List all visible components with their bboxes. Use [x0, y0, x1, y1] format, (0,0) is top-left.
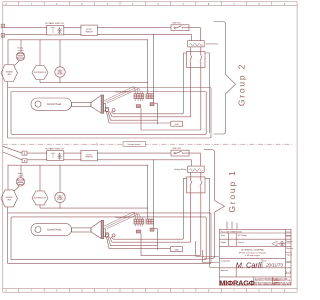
- svg-text:PWR SP: PWR SP: [85, 31, 93, 33]
- svg-text:Scale: Scale: [221, 235, 226, 237]
- svg-text:TELEMATIC GENERAL: TELEMATIC GENERAL: [241, 249, 265, 252]
- enclosure inner boundary G1: [11, 217, 206, 260]
- contact junction dots G2: [190, 55, 201, 63]
- svg-text:MIΦRAGΦ: MIΦRAGΦ: [219, 278, 254, 287]
- distributor hexagon H2 G2: [32, 66, 48, 80]
- control head handle G1: [31, 220, 115, 238]
- wire left entry diagonal 2 G1: [3, 152, 22, 160]
- wire contact 2 to terminal drop G2: [141, 68, 201, 131]
- svg-text:Replaced: Replaced: [286, 248, 293, 250]
- svg-text:ROTARY SWITCH: ROTARY SWITCH: [45, 147, 64, 150]
- emergency coupler E1 G1: [14, 165, 25, 191]
- brake solenoid switch B1 G1: [171, 150, 189, 156]
- svg-text:UPON ALL REQUESTS: UPON ALL REQUESTS: [273, 283, 292, 286]
- wire distributor stubs G2: [39, 40, 41, 83]
- ground terminal box G2: [171, 121, 183, 126]
- svg-text:FULL-SIZE DIMENSIONS: FULL-SIZE DIMENSIONS: [221, 231, 243, 233]
- svg-text:BRK SOL: BRK SOL: [173, 22, 183, 24]
- wire TB2 to bundle G2: [154, 103, 158, 124]
- engine unit hexagon H1 G1: [1, 190, 18, 207]
- junction dots buses G2: [46, 27, 154, 40]
- power supply PS1 G2: [81, 25, 98, 35]
- wire hexagon bottom bus G1: [40, 207, 148, 209]
- distributor hexagon H2 G1: [32, 191, 48, 205]
- safety relay coil K1 G2: [188, 41, 205, 52]
- wire bus L1 G1: [27, 153, 200, 166]
- emergency coupler E1 G2: [14, 40, 25, 66]
- zone numbers top: [6, 3, 286, 6]
- svg-text:Brake MSPT-1: Brake MSPT-1: [115, 216, 130, 219]
- svg-text:DISTRIBUTOR: DISTRIBUTOR: [34, 72, 47, 74]
- svg-text:BRK SOL: BRK SOL: [173, 148, 183, 150]
- rotary switch S1 G1: [47, 151, 64, 161]
- terminal block TB2 lower junction G1: [150, 228, 154, 231]
- svg-text:Safety Relay: Safety Relay: [206, 42, 219, 45]
- wire hexagon H1 to enclosure G1: [7, 207, 9, 213]
- rotary switch contact dots G2: [59, 28, 60, 34]
- terminal block TB2 G2: [146, 94, 154, 99]
- engine unit hexagon H1 G2: [1, 65, 18, 82]
- wire TB2 to bundle G1: [154, 229, 158, 250]
- wire bus L3 G1: [8, 165, 148, 190]
- wire L3 drop to terminal block G2: [147, 40, 149, 94]
- brake solenoid switch B1 G2: [171, 25, 189, 31]
- terminal block TB1 lower junction G2: [136, 105, 140, 108]
- terminal block TB2 G1: [146, 219, 154, 224]
- svg-text:Group 1: Group 1: [227, 169, 237, 212]
- svg-text:DISTRIBUTOR: DISTRIBUTOR: [34, 198, 47, 200]
- svg-text:Brake MSPT-1: Brake MSPT-1: [115, 91, 130, 94]
- svg-text:Safety Relay: Safety Relay: [174, 168, 187, 171]
- svg-text:Device: Device: [286, 231, 291, 233]
- terminal block TB1 G2: [134, 92, 144, 101]
- wire hexagon bottom bus G2: [40, 82, 148, 84]
- projection symbol: [272, 241, 285, 247]
- groups boundary label box: [123, 142, 146, 147]
- relay contact block K1 contacts G2: [187, 52, 206, 68]
- wire contact block left to connector G2: [111, 53, 187, 114]
- svg-text:GND: GND: [174, 124, 179, 126]
- enclosure inner boundary G2: [11, 92, 206, 135]
- junction dots hex bus G2: [60, 82, 149, 83]
- svg-text:ROTARY SWITCH: ROTARY SWITCH: [45, 22, 64, 25]
- wire contact block left to connector G1: [111, 178, 187, 239]
- enclosure outer boundary G1: [7, 213, 211, 264]
- wire contact 2 to terminal drop G1: [141, 193, 201, 256]
- svg-text:PUMP: PUMP: [58, 199, 63, 201]
- wire L2 drop to terminal block G1: [153, 160, 155, 228]
- wire bus L2 G2: [5, 34, 192, 40]
- left terminal box 1 G1: [22, 151, 27, 155]
- right column labels: [286, 231, 293, 263]
- svg-text:Designed by: Designed by: [221, 260, 231, 262]
- svg-text:Control Head: Control Head: [47, 103, 62, 106]
- left terminal B G2: [1, 34, 4, 38]
- wire connector bundle w3 G2: [108, 112, 158, 121]
- control head handle G2: [31, 95, 115, 113]
- svg-text:GND: GND: [174, 249, 179, 251]
- wire L2 drop to terminal block G2: [153, 34, 155, 102]
- brace group 1: [204, 150, 225, 259]
- stamp text right: [273, 277, 292, 286]
- wire ground lead G1: [107, 237, 171, 249]
- wire bus L1 G2: [5, 28, 201, 41]
- wire G1 to title block 3: [210, 258, 220, 267]
- blower motor M1 G2: [55, 40, 65, 83]
- svg-text:Approved: Approved: [221, 269, 228, 272]
- svg-text:20/11/73: 20/11/73: [265, 262, 283, 267]
- ground terminal box G1: [171, 247, 183, 252]
- boundary centre tick: [96, 143, 98, 146]
- svg-text:a 3/8 wide engine: a 3/8 wide engine: [245, 255, 260, 257]
- svg-text:PUMP: PUMP: [58, 73, 63, 75]
- svg-text:Group 2: Group 2: [237, 63, 247, 106]
- wire stubs above title block: [227, 222, 237, 230]
- blower motor M1 G1: [55, 165, 65, 208]
- wire contact block right down G1: [205, 178, 210, 258]
- wire contact 1 to connector G1: [110, 193, 191, 242]
- terminal block TB1 lower junction G1: [136, 230, 140, 233]
- stamp text left: [255, 277, 280, 286]
- wire ground lead G2: [107, 112, 171, 124]
- brace group 2: [214, 22, 236, 135]
- wire contact block right down G2: [205, 53, 210, 133]
- svg-text:EFI Hal 2 LTI about 2 JO4 (max: EFI Hal 2 LTI about 2 JO4 (max): [239, 251, 267, 254]
- contact junction dots G1: [190, 180, 201, 188]
- wire G1 to title block 2: [202, 250, 219, 263]
- zone numbers bottom: [6, 290, 286, 293]
- wire distributor stubs G1: [39, 165, 41, 208]
- power supply PS1 G1: [81, 151, 98, 161]
- wire L3 drop to terminal block G1: [147, 165, 149, 219]
- wire bus L3 G2: [8, 40, 148, 65]
- wire connector bundle w3 G1: [108, 237, 158, 246]
- rotary switch S1 G2: [47, 25, 64, 35]
- groups boundary dashed line: [3, 143, 293, 145]
- svg-text:3=3: 3=3: [285, 271, 291, 275]
- left terminal box 2 G1: [22, 159, 27, 163]
- left terminal A G2: [1, 24, 4, 28]
- rotary switch contact dots G1: [59, 153, 60, 159]
- svg-text:PWR SP: PWR SP: [85, 157, 93, 159]
- terminal block TB2 lower junction G2: [150, 103, 154, 106]
- title block frame: [219, 229, 291, 285]
- svg-text:Edition: Edition: [221, 241, 227, 244]
- wire left entry diagonal 1 G1: [3, 146, 22, 153]
- wire bus L2 G1: [27, 160, 192, 166]
- terminal block TB1 G1: [134, 217, 144, 226]
- svg-text:Replaces: Replaces: [286, 241, 293, 243]
- wire hexagon H1 to enclosure G2: [7, 82, 9, 88]
- svg-text:M. Carli: M. Carli: [236, 260, 262, 269]
- enclosure outer boundary G2: [7, 88, 211, 139]
- svg-text:Groups bound.: Groups bound.: [128, 144, 142, 146]
- svg-text:Prod. gr.: Prod. gr.: [238, 242, 245, 244]
- svg-text:GP Change: GP Change: [238, 235, 247, 237]
- junction dots buses G1: [46, 153, 154, 166]
- wire G1 to title block 1: [196, 241, 220, 257]
- relay contact block K1 contacts G1: [187, 177, 206, 193]
- wire contact 1 to connector G2: [110, 68, 191, 117]
- wire fan control head to terminal block G1: [104, 212, 140, 229]
- junction dots hex bus G1: [60, 208, 149, 209]
- wire fan control head to terminal block G2: [104, 87, 140, 104]
- svg-text:Original: Original: [286, 255, 292, 257]
- svg-text:Control Head: Control Head: [47, 229, 62, 232]
- safety relay coil K1 G1: [188, 166, 205, 177]
